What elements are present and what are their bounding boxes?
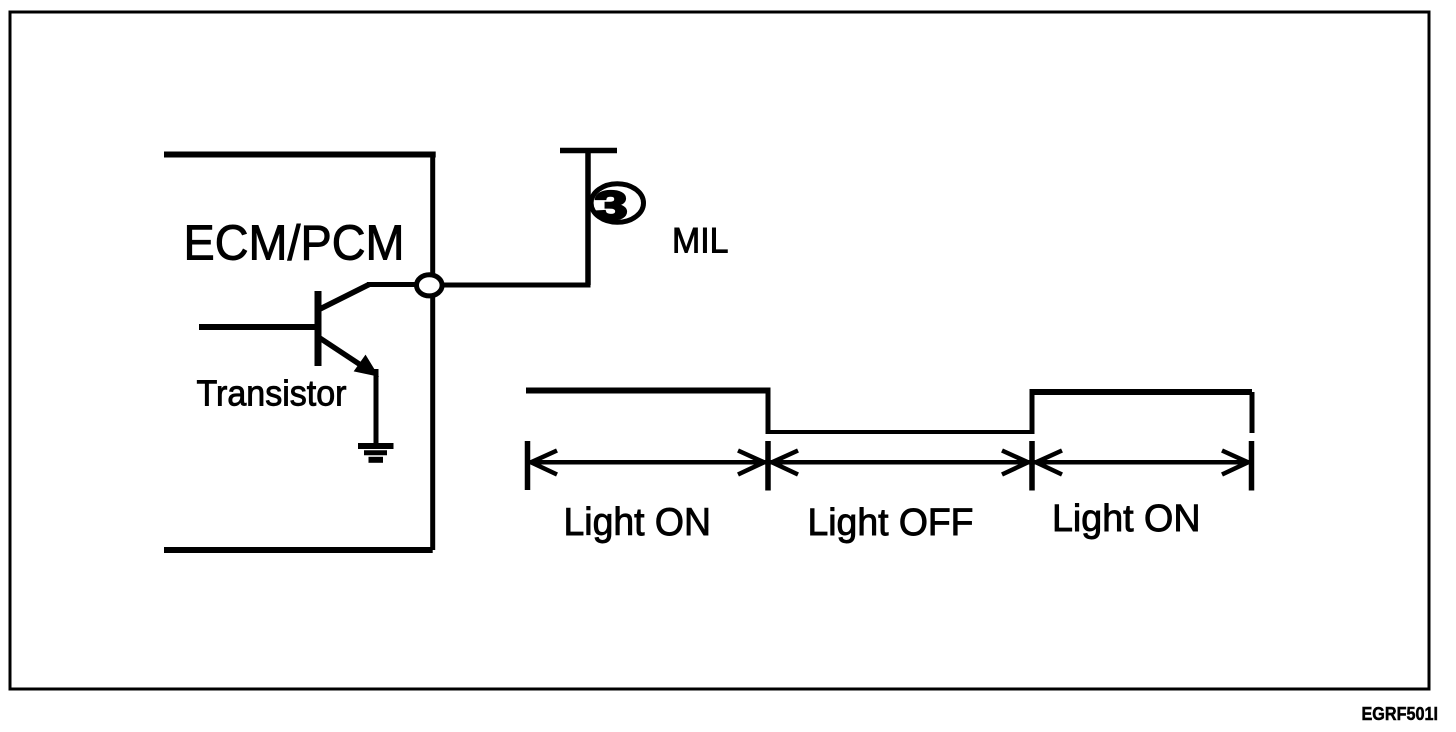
waveform rising edge (1030, 389, 1035, 434)
dimension tick 4 (1249, 441, 1255, 491)
transistor Q1 (199, 285, 376, 446)
waveform end drop (1250, 392, 1255, 433)
emitter arrowhead (355, 356, 379, 377)
waveform high segment 1 (Light ON) (526, 388, 768, 394)
waveform low segment (Light OFF) (766, 430, 1035, 434)
wire collector to node (367, 282, 420, 287)
wire lamp vertical (585, 149, 591, 286)
arrowhead left at tick 3 (1036, 451, 1062, 475)
waveform falling edge (766, 388, 771, 435)
svg-text:3: 3 (595, 183, 628, 228)
dimension tick 2 (765, 441, 771, 491)
arrowhead left at tick 2 (772, 451, 798, 475)
dimension line (528, 460, 1252, 465)
node junction circle (417, 275, 443, 296)
svg-text:MIL: MIL (672, 221, 729, 261)
svg-text:Light ON: Light ON (564, 501, 712, 544)
svg-text:Light ON: Light ON (1052, 497, 1201, 540)
svg-text:Light OFF: Light OFF (808, 501, 974, 544)
waveform high segment 2 (Light ON) (1030, 389, 1253, 395)
lamp MIL bulb (591, 183, 643, 228)
arrowhead right at tick 4 (1222, 451, 1248, 475)
svg-text:EGRF501I: EGRF501I (1362, 704, 1439, 724)
arrowhead left at tick 1 (531, 451, 557, 475)
arrowhead right at tick 2 (738, 451, 764, 475)
svg-text:ECM/PCM: ECM/PCM (184, 216, 405, 271)
ground (358, 446, 394, 460)
arrowhead right at tick 3 (1002, 451, 1028, 475)
power supply bar (560, 148, 617, 154)
dimension tick 3 (1029, 441, 1035, 491)
ECM/PCM box U1 (164, 152, 436, 551)
wire node to lamp (438, 283, 591, 288)
dimension tick 1 (525, 441, 531, 490)
svg-text:Transistor: Transistor (197, 372, 347, 413)
